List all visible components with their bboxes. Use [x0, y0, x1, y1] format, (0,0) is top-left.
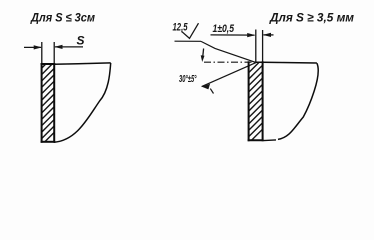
extension line right [53, 42, 55, 64]
cut-piece top edge (left) [54, 63, 110, 64]
plate section outline (left) [42, 64, 55, 142]
svg-text:1±0,5: 1±0,5 [213, 23, 235, 35]
leader to bevel corner [201, 41, 256, 62]
arrow barb flick [210, 89, 213, 94]
bevel arrowhead [202, 84, 211, 90]
curve tail dash [264, 139, 277, 142]
dimension line with right arrow [211, 30, 274, 63]
extension line right [262, 30, 264, 62]
svg-text:S: S [77, 33, 85, 47]
svg-text:30°±5°: 30°±5° [179, 74, 197, 85]
extension line left [255, 30, 257, 63]
roughness check symbol [182, 23, 199, 38]
hatching of plate section (right) [249, 52, 263, 143]
dash-dot datum line [204, 61, 255, 63]
angle down-arrow onto datum line [201, 49, 205, 63]
bevel line with extension [202, 63, 256, 87]
svg-text:12,5: 12,5 [173, 21, 189, 33]
cut-piece curved flame-cut edge (left) [54, 63, 111, 142]
plate section outline (right) [249, 62, 263, 140]
hatching of plate section (left) [42, 56, 55, 145]
cut-piece curved flame-cut edge (right) [278, 63, 318, 139]
extension line left [41, 42, 43, 64]
root face land + cut-piece top edge (right) [256, 61, 317, 64]
dimension S: left dim line with right arrow [24, 42, 83, 64]
svg-text:Для S ≤ 3см: Для S ≤ 3см [30, 11, 95, 25]
dimension S: right tail with left arrow [55, 46, 83, 48]
svg-text:Для S ≥ 3,5 мм: Для S ≥ 3,5 мм [269, 11, 354, 25]
right tail with left arrow [264, 34, 274, 36]
roughness shelf line [175, 40, 202, 42]
